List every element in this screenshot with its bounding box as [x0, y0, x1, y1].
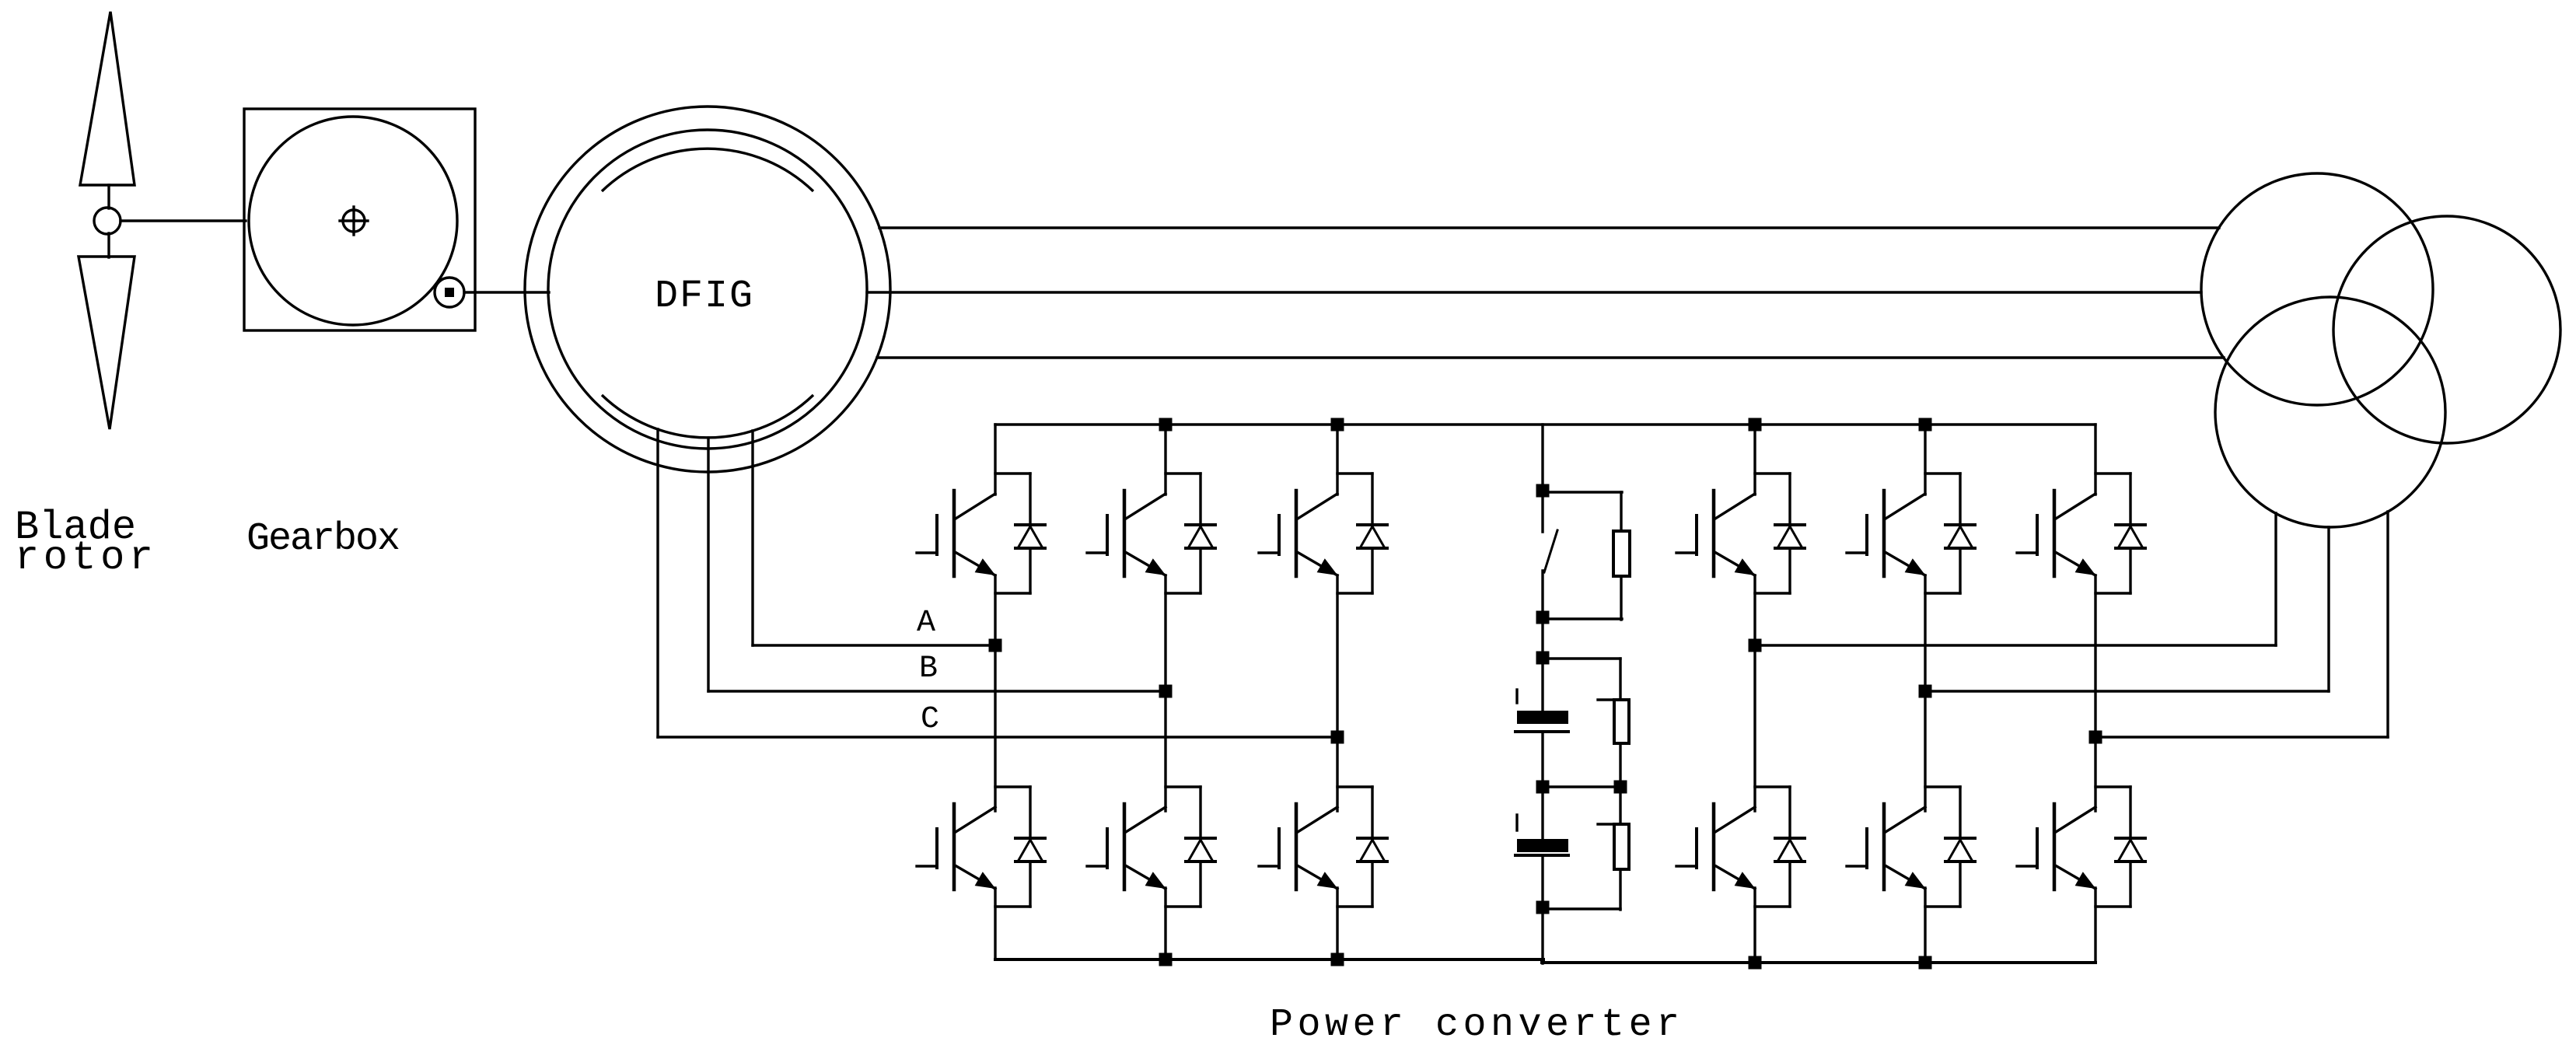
wire: grid phase A vertical to transformer: [2274, 513, 2277, 645]
transistor Q4 IGBT (rotor-side leg B lower): [1126, 807, 1166, 832]
wire: grid phase B vertical to transformer: [2327, 527, 2330, 691]
blade rotor: upper blade: [80, 12, 135, 185]
node: bottom bus / grid leg A: [1749, 956, 1762, 970]
svg-text:C: C: [921, 702, 939, 737]
wire: rotor-side leg A upper segment: [994, 425, 996, 495]
wire: rotor phase B horizontal to node B: [708, 690, 1166, 692]
blade rotor: upper blade neck wire: [107, 185, 110, 208]
gearbox input shaft mark (cross vertical): [352, 207, 355, 235]
node: DC-link lower: [1536, 901, 1550, 914]
diode D10 antiparallel (grid-side leg B lower): [1925, 785, 1960, 788]
svg-text:Power converter: Power converter: [1270, 1003, 1684, 1047]
wire: rotor phase B vertical from DFIG: [707, 438, 709, 691]
transistor Q7 IGBT (grid-side leg A upper): [1715, 494, 1755, 519]
diode D9 antiparallel (grid-side leg B upper): [1925, 472, 1960, 474]
svg-text:A: A: [917, 606, 935, 641]
gearbox pinion circle: [435, 278, 464, 307]
capacitor C1 bottom plate (thin): [1515, 730, 1568, 733]
wire: grid-side leg c lower segment: [2094, 888, 2096, 963]
node: grid phase C junction: [2089, 731, 2102, 744]
diode D2 antiparallel (rotor-side leg A lower): [995, 785, 1030, 788]
transistor Q12 IGBT (grid-side leg C lower): [2056, 807, 2095, 832]
diode D4 antiparallel (rotor-side leg B lower): [1166, 785, 1201, 788]
wire: grid phase C horizontal: [2095, 736, 2388, 738]
wire: midpoint link to resistor chain: [1543, 785, 1620, 788]
wire: rotor-side leg B upper segment: [1164, 425, 1166, 495]
wire: resistor R2 top link: [1543, 657, 1620, 659]
wire: DC bus positive (top): [995, 423, 2095, 425]
gearbox input shaft mark (cross horizontal): [340, 219, 368, 222]
transistor Q10 IGBT (grid-side leg B lower): [1886, 807, 1925, 832]
node A junction rotor leg: [989, 639, 1002, 652]
diode D5 antiparallel (rotor-side leg C upper): [1337, 472, 1372, 474]
diode D11 antiparallel (grid-side leg C upper): [2095, 472, 2130, 474]
wire: crowbar resistor lower lead: [1620, 576, 1622, 620]
wire: grid-side leg c middle segment: [2094, 575, 2096, 811]
node: DC-link upper: [1536, 652, 1550, 665]
gearbox pinion center (filled square): [445, 288, 454, 297]
node B junction rotor leg: [1159, 685, 1173, 698]
wire: grid-side leg a upper segment: [1753, 425, 1756, 495]
wire: grid-side leg b middle segment: [1924, 575, 1926, 811]
wire: grid-side leg a lower segment: [1753, 888, 1756, 963]
svg-text:rotor: rotor: [15, 535, 158, 581]
wire: grid-side leg a middle segment: [1753, 575, 1756, 811]
svg-text:DFIG: DFIG: [655, 274, 754, 319]
transistor Q2 IGBT (rotor-side leg A lower): [956, 807, 995, 832]
wire: rotor-side leg C middle segment: [1336, 575, 1338, 811]
wire: grid-side leg c upper segment: [2094, 425, 2096, 495]
resistor R3 top tick: [1598, 823, 1629, 825]
gearbox main gear circle: [249, 117, 457, 325]
DFIG outer stator circle: [525, 107, 890, 472]
wire: crowbar resistor upper lead: [1620, 492, 1622, 531]
wire: resistor R2 upper lead: [1619, 659, 1621, 700]
resistor R2 top tick: [1598, 698, 1629, 701]
transistor Q9 IGBT (grid-side leg B upper): [1886, 494, 1925, 519]
wire: crowbar top link: [1543, 491, 1622, 493]
wire: stator phase 3 to transformer: [877, 356, 2224, 358]
wire: rotor phase A vertical from DFIG: [751, 431, 753, 645]
node: bottom bus / rotor leg C: [1331, 953, 1344, 966]
diode D6 antiparallel (rotor-side leg C lower): [1337, 785, 1372, 788]
node: bottom bus / grid leg B: [1919, 956, 1932, 970]
node: grid phase A junction: [1749, 639, 1762, 652]
wire: grid-side leg b upper segment: [1924, 425, 1926, 495]
transistor Q5 IGBT (rotor-side leg C upper): [1298, 494, 1337, 519]
transistor Q11 IGBT (grid-side leg C upper): [2056, 494, 2095, 519]
resistor R1 crowbar: [1613, 531, 1630, 576]
node: top bus / grid leg B: [1919, 418, 1932, 432]
resistor R3 balancing: [1614, 824, 1629, 869]
wire: DC-link vertical upper segment: [1541, 425, 1543, 532]
node C junction rotor leg: [1331, 731, 1344, 744]
wire: resistor R3 upper lead: [1619, 787, 1621, 824]
wire: grid phase C vertical to transformer: [2386, 512, 2389, 737]
transistor Q3 IGBT (rotor-side leg B upper): [1126, 494, 1166, 519]
node: top bus / rotor leg B: [1159, 418, 1173, 432]
resistor R2 balancing: [1614, 700, 1629, 743]
wire: crowbar bottom link: [1543, 617, 1622, 620]
wire: resistor R2 lower lead: [1619, 743, 1621, 787]
diode D3 antiparallel (rotor-side leg B upper): [1166, 472, 1201, 474]
node: DC-link midpoint left: [1536, 781, 1550, 794]
transistor Q6 IGBT (rotor-side leg C lower): [1298, 807, 1337, 832]
wire: high-speed shaft gearbox to DFIG: [464, 291, 549, 293]
blade rotor: lower blade neck wire: [107, 233, 110, 257]
gearbox input shaft mark (circle): [343, 210, 365, 232]
wire: rotor-side leg C upper segment: [1336, 425, 1338, 495]
blade rotor: hub circle: [94, 208, 121, 234]
svg-text:B: B: [919, 652, 938, 687]
node: crowbar bottom: [1536, 611, 1550, 624]
blade rotor: lower blade: [79, 257, 135, 429]
wire: low-speed shaft hub to gearbox: [121, 219, 246, 222]
transformer winding circle (right): [2333, 216, 2560, 443]
wire: resistor R3 bottom link: [1543, 907, 1620, 910]
wire: DC-link vertical segment C1 to C2: [1541, 732, 1543, 841]
capacitor C2 top plate (thick): [1517, 839, 1568, 852]
node: DC-link midpoint right: [1614, 781, 1627, 794]
wire: rotor-side leg C lower segment: [1336, 888, 1338, 959]
wire: stator phase 1 to transformer: [879, 226, 2219, 229]
transformer winding circle (bottom-left): [2215, 297, 2445, 527]
wire: rotor-side leg B middle segment: [1164, 575, 1166, 811]
wire: rotor-side leg A middle segment: [994, 575, 996, 811]
wire: rotor phase C vertical from DFIG: [656, 429, 659, 737]
wire: stator phase 2 to transformer: [867, 291, 2201, 293]
wire: DC bus negative rotor side (bottom left): [995, 958, 1543, 961]
capacitor C2 polarity tick: [1515, 815, 1518, 830]
switch S1 crowbar blade: [1544, 530, 1557, 572]
DFIG inner bottom arc: [602, 395, 813, 438]
transformer winding circle (top-left): [2201, 173, 2433, 405]
node: crowbar top: [1536, 484, 1550, 498]
wire: rotor phase C horizontal to node C: [658, 736, 1337, 738]
node: grid phase B junction: [1919, 685, 1932, 698]
DFIG inner rotor circle: [548, 130, 867, 449]
capacitor C1 top plate (thick): [1517, 711, 1568, 724]
wire: rotor-side leg A lower segment: [994, 888, 996, 959]
node: bottom bus / rotor leg B: [1159, 953, 1173, 966]
diode D12 antiparallel (grid-side leg C lower): [2095, 785, 2130, 788]
diode D1 antiparallel (rotor-side leg A upper): [995, 472, 1030, 474]
node: top bus / grid leg A: [1749, 418, 1762, 432]
wire: rotor phase A horizontal to node A: [753, 644, 995, 646]
transistor Q8 IGBT (grid-side leg A lower): [1715, 807, 1755, 832]
wire: DC bus negative grid side (bottom right): [1542, 961, 2095, 964]
capacitor C2 bottom plate (thin): [1515, 854, 1568, 857]
capacitor C1 polarity tick: [1515, 690, 1518, 703]
DFIG inner top arc: [602, 149, 813, 191]
wire: DC-link vertical lower segment: [1541, 855, 1543, 963]
wire: grid phase A horizontal: [1755, 644, 2276, 646]
transistor Q1 IGBT (rotor-side leg A upper): [956, 494, 995, 519]
wire: grid-side leg b lower segment: [1924, 888, 1926, 963]
node: top bus / rotor leg C: [1331, 418, 1344, 432]
wire: rotor-side leg B lower segment: [1164, 888, 1166, 959]
gearbox enclosure box: [244, 109, 475, 330]
diode D7 antiparallel (grid-side leg A upper): [1755, 472, 1790, 474]
diode D8 antiparallel (grid-side leg A lower): [1755, 785, 1790, 788]
svg-text:Gearbox: Gearbox: [246, 517, 399, 561]
wire: DC-link vertical segment switch to capacitor C1: [1541, 571, 1543, 712]
wire: grid phase B horizontal: [1925, 690, 2329, 692]
wire: resistor R3 lower lead: [1619, 869, 1621, 910]
